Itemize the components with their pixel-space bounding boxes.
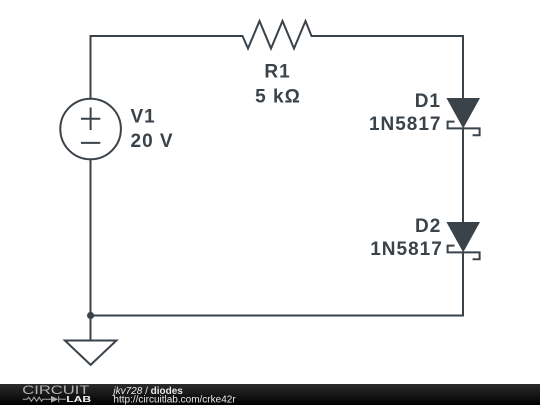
svg-text:V1: V1 [131,106,156,127]
svg-text:D2: D2 [415,216,441,237]
svg-text:LAB: LAB [66,395,91,405]
svg-text:R1: R1 [264,62,290,83]
svg-text:1N5817: 1N5817 [369,114,442,135]
svg-text:20 V: 20 V [131,131,174,152]
svg-text:http://circuitlab.com/crke42r: http://circuitlab.com/crke42r [113,394,236,405]
svg-text:5 kΩ: 5 kΩ [255,86,301,107]
svg-text:D1: D1 [415,91,441,112]
svg-text:1N5817: 1N5817 [370,239,443,260]
